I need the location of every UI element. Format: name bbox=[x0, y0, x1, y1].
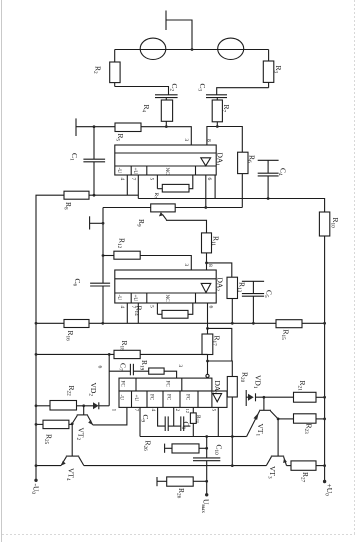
resistor R18 bbox=[114, 350, 208, 358]
svg-text:3: 3 bbox=[177, 365, 183, 368]
capacitor C3 bbox=[206, 95, 227, 100]
capacitor C5 with chassis bar bbox=[242, 281, 264, 323]
node left rail R25 bbox=[35, 423, 38, 426]
svg-text:NC: NC bbox=[164, 295, 170, 303]
capacitor C1 bbox=[83, 127, 105, 196]
resistor R4 bbox=[161, 100, 172, 127]
op-amp DA2 body bbox=[115, 270, 216, 303]
svg-text:5: 5 bbox=[149, 305, 155, 308]
node VD1 VT1 base bbox=[263, 396, 266, 399]
resistor R26 with terminal bar bbox=[165, 444, 207, 453]
svg-text:8: 8 bbox=[207, 264, 213, 267]
resistor R5h bbox=[115, 123, 141, 132]
pin 6 lead DA2 bbox=[207, 303, 209, 328]
resistor R2 bbox=[110, 50, 120, 87]
resistor R5 bbox=[212, 100, 222, 127]
node ground mid rail bbox=[102, 222, 105, 225]
resistor R27 bbox=[287, 461, 325, 470]
svg-text:6: 6 bbox=[208, 306, 214, 309]
node C10 R26 bbox=[205, 447, 208, 450]
node top junction bbox=[191, 48, 194, 51]
node left rail R18 bbox=[35, 353, 38, 356]
terminal +U0 bbox=[323, 480, 326, 483]
wire input to R5h bbox=[76, 126, 115, 128]
svg-text:6: 6 bbox=[206, 178, 212, 181]
svg-text:7: 7 bbox=[130, 306, 136, 309]
resistor R8 bbox=[64, 191, 138, 199]
node R17 bottom bbox=[206, 360, 209, 363]
wire pin6 branch to R20 column bbox=[208, 328, 232, 361]
page left border bbox=[1, 0, 3, 542]
lamp BM2 bbox=[218, 38, 244, 59]
resistor R24 bbox=[190, 407, 196, 436]
node VT1 emitter R23 bbox=[277, 418, 280, 421]
svg-text:6: 6 bbox=[97, 366, 103, 369]
svg-text:2: 2 bbox=[174, 409, 180, 412]
wire main top line bbox=[115, 49, 269, 51]
node left rail W1 bbox=[35, 322, 38, 325]
op-amp DA2 triangle bbox=[201, 283, 211, 292]
wire W4 to VT1 emitter bbox=[232, 436, 246, 438]
svg-text:+U: +U bbox=[132, 168, 138, 175]
node R5v bottom bbox=[216, 125, 219, 128]
transistor VT4 bbox=[61, 456, 84, 466]
potentiometer R9 wiper arrow bbox=[159, 212, 207, 233]
svg-text:NC: NC bbox=[164, 168, 170, 176]
wire VT2 collector to VT4 base bbox=[71, 424, 73, 456]
node VT2 collector R25 bbox=[71, 422, 74, 425]
node C1 bottom bbox=[93, 194, 96, 197]
IC DA3 triangle bbox=[213, 394, 222, 402]
pin 6 lead DA1 bbox=[205, 175, 207, 208]
page right border bbox=[354, 0, 356, 536]
svg-text:-U: -U bbox=[116, 168, 122, 174]
wire mid rail bbox=[102, 208, 104, 324]
wire VT4 collector to VT3 bbox=[84, 465, 266, 467]
svg-text:FC: FC bbox=[165, 381, 171, 388]
svg-text:FC: FC bbox=[120, 381, 126, 388]
ground bar stage2 bbox=[90, 216, 103, 229]
capacitor C4 with chassis bar bbox=[258, 160, 279, 198]
node C10 R28 bbox=[205, 480, 208, 483]
node right rail R23 bbox=[323, 418, 326, 421]
pin lead DA3 top circle bbox=[206, 361, 209, 378]
svg-text:3: 3 bbox=[183, 139, 189, 142]
wire VD2 column bbox=[108, 354, 110, 405]
wire R18 row from rail bbox=[36, 353, 114, 355]
node R4 bottom bbox=[165, 125, 168, 128]
terminal -U0 bbox=[34, 479, 37, 482]
pin 5 lead DA1 bbox=[156, 175, 158, 189]
resistor R22 bbox=[36, 401, 77, 411]
svg-text:5: 5 bbox=[149, 178, 155, 181]
resistor R28 with terminal bar bbox=[157, 477, 207, 486]
svg-text:FC: FC bbox=[149, 394, 155, 401]
node C1 top bbox=[93, 125, 96, 128]
pin 7 lead DA3 bbox=[139, 407, 141, 436]
transistor VT2 bbox=[72, 406, 93, 425]
wire top bar to junction bbox=[167, 20, 193, 50]
resistor R12 bbox=[103, 251, 140, 259]
svg-text:7: 7 bbox=[133, 409, 139, 412]
diode VD2 bbox=[77, 402, 110, 409]
wire VT1 emitter to VT3 base bbox=[277, 419, 279, 456]
resistor R11 bbox=[202, 233, 212, 270]
resistor R13 bbox=[227, 277, 238, 323]
svg-text:8: 8 bbox=[206, 139, 212, 142]
svg-text:FC: FC bbox=[185, 394, 191, 401]
wire R3 to C3 bbox=[217, 88, 269, 95]
wire DA3 bottom W4 bbox=[140, 436, 232, 438]
wire R11 to R13 bbox=[207, 263, 232, 277]
node right rail R27 bbox=[323, 464, 326, 467]
resistor R25 bbox=[36, 420, 72, 428]
svg-text:7: 7 bbox=[130, 178, 136, 181]
pin 5 lead DA3 bbox=[217, 407, 219, 436]
node W4 R20 column bbox=[231, 435, 234, 438]
wire R5h to pin3 bbox=[141, 127, 191, 145]
diode VD1 with terminal bar bbox=[246, 390, 293, 406]
pin 4 lead DA1 bbox=[126, 175, 128, 195]
node pin6 pot wire bbox=[204, 206, 207, 209]
svg-text:4: 4 bbox=[119, 178, 125, 181]
node DA2 pin6 branch bbox=[206, 327, 209, 330]
capacitor C6 bbox=[90, 283, 110, 286]
pin 7 lead DA2 bbox=[137, 303, 139, 323]
node VD2 VT2 base bbox=[82, 404, 85, 407]
ground terminal bar top bbox=[165, 11, 167, 31]
op-amp DA1 triangle bbox=[201, 158, 211, 166]
pin 2 lead DA3 bbox=[173, 407, 175, 426]
node R18 VD2 column bbox=[108, 353, 111, 356]
pin 4 lead DA2 bbox=[126, 303, 128, 323]
pin 5 lead DA2 bbox=[156, 303, 158, 314]
resistor R7 bbox=[157, 175, 192, 192]
wire -U rail to VT4 emitter bbox=[36, 465, 61, 467]
capacitor C2 bbox=[155, 95, 178, 100]
svg-text:4: 4 bbox=[119, 306, 125, 309]
transistor VT1 bbox=[247, 397, 279, 436]
svg-text:R24: R24 bbox=[195, 415, 201, 423]
resistor R15 bbox=[276, 320, 325, 328]
capacitor C10 bbox=[193, 437, 220, 495]
wire R2 to C2 bbox=[115, 87, 169, 95]
resistor R23 bbox=[278, 414, 325, 423]
svg-text:5: 5 bbox=[211, 409, 217, 412]
node left rail W3 bbox=[35, 464, 38, 467]
resistor R3 bbox=[263, 50, 274, 88]
node W1 right rail bbox=[323, 322, 326, 325]
svg-text:R7: R7 bbox=[153, 193, 159, 199]
transistor VT3 bbox=[266, 456, 287, 466]
node R11 bottom bbox=[205, 262, 208, 265]
svg-text:+U: +U bbox=[133, 395, 139, 402]
capacitor C7 bbox=[109, 364, 149, 376]
resistor R19 bbox=[149, 368, 177, 378]
IC DA3 top row bbox=[119, 378, 212, 391]
wire VT2 emitter to DA3 pin1 bbox=[93, 407, 127, 425]
capacitor C8 bbox=[181, 416, 191, 431]
resistor R21 bbox=[294, 392, 325, 402]
op-amp DA1 body bbox=[115, 145, 216, 175]
svg-text:+U: +U bbox=[132, 295, 138, 302]
lamp BM1 bbox=[140, 38, 166, 59]
svg-text:FC: FC bbox=[166, 394, 172, 401]
node W3 R20 column bbox=[231, 464, 234, 467]
node left rail R22 bbox=[35, 404, 38, 407]
node C4 bottom bbox=[267, 197, 270, 200]
resistor R10 bbox=[319, 212, 329, 482]
node W4 C10 bbox=[205, 435, 208, 438]
resistor R20 bbox=[227, 377, 237, 466]
node R12 mid rail bbox=[102, 254, 105, 257]
capacitor C9 bbox=[165, 416, 181, 431]
resistor R17 bbox=[202, 328, 213, 361]
svg-text:-U: -U bbox=[116, 295, 122, 301]
wire supply row W1 bbox=[36, 322, 64, 324]
node R13 W1 bbox=[231, 322, 234, 325]
wire supply row stage1 bbox=[138, 199, 324, 213]
resistor R16 bbox=[64, 320, 276, 328]
node right rail R21 bbox=[323, 396, 326, 399]
wire R12 to pin3 DA2 bbox=[140, 256, 191, 271]
pin lead DA1 right cell bbox=[214, 175, 216, 199]
input terminal bar bbox=[75, 118, 77, 136]
resistor R14 bbox=[157, 303, 192, 318]
resistor R6 bbox=[238, 152, 248, 207]
wire left rail bbox=[36, 195, 64, 480]
svg-text:1: 1 bbox=[111, 409, 117, 412]
wire R5v node left to pin8 bbox=[207, 127, 242, 153]
terminal Uout bbox=[205, 493, 208, 496]
svg-text:-U: -U bbox=[119, 395, 125, 401]
wire R17 node to R20 bbox=[208, 361, 233, 377]
potentiometer R9 bbox=[103, 204, 242, 212]
pin 7 lead DA1 bbox=[137, 175, 139, 199]
node C6 bottom W1 bbox=[101, 322, 104, 325]
page bottom border bbox=[2, 534, 355, 536]
svg-text:12: 12 bbox=[185, 409, 190, 414]
IC DA3 bottom row bbox=[119, 391, 227, 407]
node C5 W1 bbox=[252, 322, 255, 325]
pin 4 lead DA3 bbox=[158, 407, 166, 426]
svg-text:4: 4 bbox=[150, 409, 156, 412]
svg-text:3: 3 bbox=[183, 264, 189, 267]
